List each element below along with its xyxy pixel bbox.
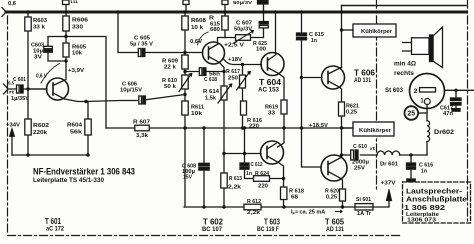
svg-text:10µ/15V: 10µ/15V — [120, 88, 143, 94]
svg-text:IF≈ ca. 25 mA: IF≈ ca. 25 mA — [291, 210, 325, 216]
svg-text:2,2k: 2,2k — [247, 210, 261, 216]
svg-text:R604: R604 — [67, 123, 83, 129]
svg-text:R 612: R 612 — [247, 199, 261, 205]
svg-text:AD 131: AD 131 — [354, 78, 372, 84]
svg-text:47n: 47n — [443, 111, 454, 117]
svg-text:330: 330 — [72, 25, 83, 31]
svg-text:+2,5 V: +2,5 V — [224, 43, 244, 49]
svg-text:1,5k: 1,5k — [205, 96, 217, 102]
svg-text:3V: 3V — [34, 55, 42, 61]
svg-text:C 601: C 601 — [13, 77, 26, 83]
svg-text:Kühlkörper: Kühlkörper — [361, 29, 393, 35]
svg-text:22 k: 22 k — [164, 65, 177, 71]
svg-text:1n: 1n — [311, 38, 318, 44]
svg-text:BC 119 F: BC 119 F — [257, 227, 279, 233]
svg-text:25: 25 — [407, 111, 415, 118]
svg-text:100: 100 — [256, 47, 266, 53]
svg-text:1n: 1n — [246, 171, 252, 177]
svg-text:1A Tr: 1A Tr — [357, 211, 372, 217]
svg-text:R 614: R 614 — [203, 89, 220, 95]
svg-text:1µ/35V: 1µ/35V — [11, 96, 30, 102]
svg-text:1n: 1n — [421, 169, 428, 175]
svg-text:R611: R611 — [191, 105, 204, 111]
svg-text:+37V: +37V — [381, 181, 396, 187]
svg-text:0,6: 0,6 — [8, 1, 16, 7]
svg-text:R 613: R 613 — [229, 176, 242, 182]
svg-text:R 617: R 617 — [226, 69, 240, 75]
svg-text:220: 220 — [249, 124, 259, 130]
svg-text:10 k: 10 k — [191, 25, 204, 31]
svg-text:R608: R608 — [191, 18, 206, 24]
svg-text:0,6V: 0,6V — [190, 39, 202, 45]
svg-text:rt: rt — [9, 90, 15, 95]
svg-text:T 606: T 606 — [354, 69, 376, 78]
svg-text:min 4Ω: min 4Ω — [394, 62, 416, 68]
svg-text:Dr 601: Dr 601 — [380, 162, 398, 168]
svg-text:56k: 56k — [70, 130, 83, 136]
svg-text:rt: rt — [370, 146, 376, 151]
svg-text:50 k: 50 k — [164, 84, 177, 90]
svg-text:111: 111 — [70, 0, 79, 4]
svg-text:C 610: C 610 — [353, 144, 367, 150]
svg-text:33: 33 — [268, 111, 275, 117]
svg-text:rechts: rechts — [394, 71, 415, 77]
svg-text:T 603: T 603 — [264, 218, 280, 227]
svg-text:2,2k: 2,2k — [228, 185, 242, 191]
svg-text:R606: R606 — [72, 18, 88, 24]
svg-text:C 618: C 618 — [204, 77, 217, 83]
svg-text:+18V: +18V — [228, 57, 242, 63]
svg-text:0,25: 0,25 — [346, 110, 357, 116]
svg-text:3,3k: 3,3k — [136, 133, 149, 139]
svg-text:Si 601: Si 601 — [356, 197, 371, 203]
svg-text:+18,5V: +18,5V — [309, 123, 328, 129]
svg-text:R 624: R 624 — [255, 171, 270, 177]
svg-text:0,6 V: 0,6 V — [36, 74, 47, 80]
svg-text:T 604: T 604 — [259, 78, 282, 87]
svg-text:220k: 220k — [33, 130, 48, 136]
svg-text:T 601: T 601 — [45, 217, 61, 226]
svg-text:680: 680 — [210, 27, 220, 33]
svg-text:+3,9V: +3,9V — [68, 68, 84, 74]
svg-text:+34V: +34V — [6, 123, 20, 129]
svg-text:10k: 10k — [191, 111, 203, 117]
svg-text:25V: 25V — [354, 166, 365, 172]
svg-text:1 306 892: 1 306 892 — [404, 203, 445, 212]
svg-text:50µ/3V: 50µ/3V — [234, 27, 253, 33]
svg-text:68: 68 — [291, 195, 298, 201]
svg-text:AD 131: AD 131 — [326, 227, 345, 233]
svg-text:5µ / 35 V: 5µ / 35 V — [130, 42, 154, 48]
svg-text:T 602: T 602 — [203, 218, 224, 227]
svg-text:R602: R602 — [33, 123, 49, 129]
svg-text:C 612: C 612 — [251, 162, 263, 168]
svg-text:BC 107: BC 107 — [202, 227, 223, 233]
svg-text:AC 153: AC 153 — [258, 88, 280, 94]
svg-text:Dr602: Dr602 — [434, 130, 455, 136]
svg-text:250: 250 — [228, 76, 238, 82]
svg-text:1306 073: 1306 073 — [407, 218, 436, 224]
svg-text:NF-Endverstärker 1 306 843: NF-Endverstärker 1 306 843 — [33, 167, 135, 177]
svg-text:Leiterplatte TS 45/1-330: Leiterplatte TS 45/1-330 — [33, 178, 105, 184]
svg-text:33 k: 33 k — [33, 25, 46, 31]
svg-text:0,5: 0,5 — [8, 81, 14, 86]
svg-text:R 607: R 607 — [133, 120, 150, 126]
svg-text:St 603: St 603 — [385, 88, 404, 94]
svg-text:Kühlkörper: Kühlkörper — [359, 128, 392, 134]
svg-text:15V: 15V — [183, 175, 192, 181]
svg-text:10k: 10k — [72, 51, 83, 57]
svg-text:50µ/3V: 50µ/3V — [233, 0, 252, 5]
svg-text:T 605: T 605 — [325, 218, 345, 227]
svg-text:aC 172: aC 172 — [46, 227, 65, 233]
svg-text:220: 220 — [258, 184, 268, 190]
svg-text:R603: R603 — [33, 18, 47, 24]
svg-text:0,25: 0,25 — [326, 195, 337, 201]
